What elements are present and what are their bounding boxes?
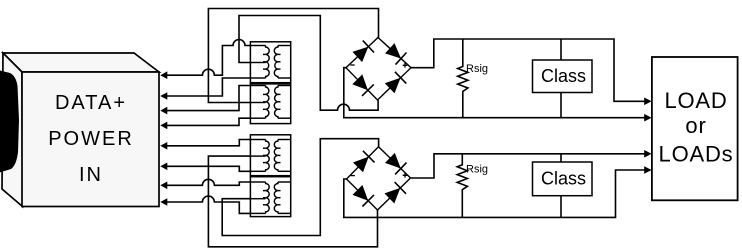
svg-text:Class: Class (541, 66, 586, 86)
svg-text:DATA+: DATA+ (55, 92, 127, 114)
svg-text:LOAD: LOAD (664, 88, 727, 113)
svg-text:POWER: POWER (48, 128, 134, 150)
svg-text:LOADs: LOADs (659, 142, 734, 167)
svg-text:IN: IN (79, 164, 103, 186)
svg-text:Rsig: Rsig (466, 163, 488, 175)
svg-text:or: or (685, 113, 706, 138)
svg-text:Class: Class (541, 169, 586, 189)
svg-text:Rsig: Rsig (466, 63, 488, 75)
